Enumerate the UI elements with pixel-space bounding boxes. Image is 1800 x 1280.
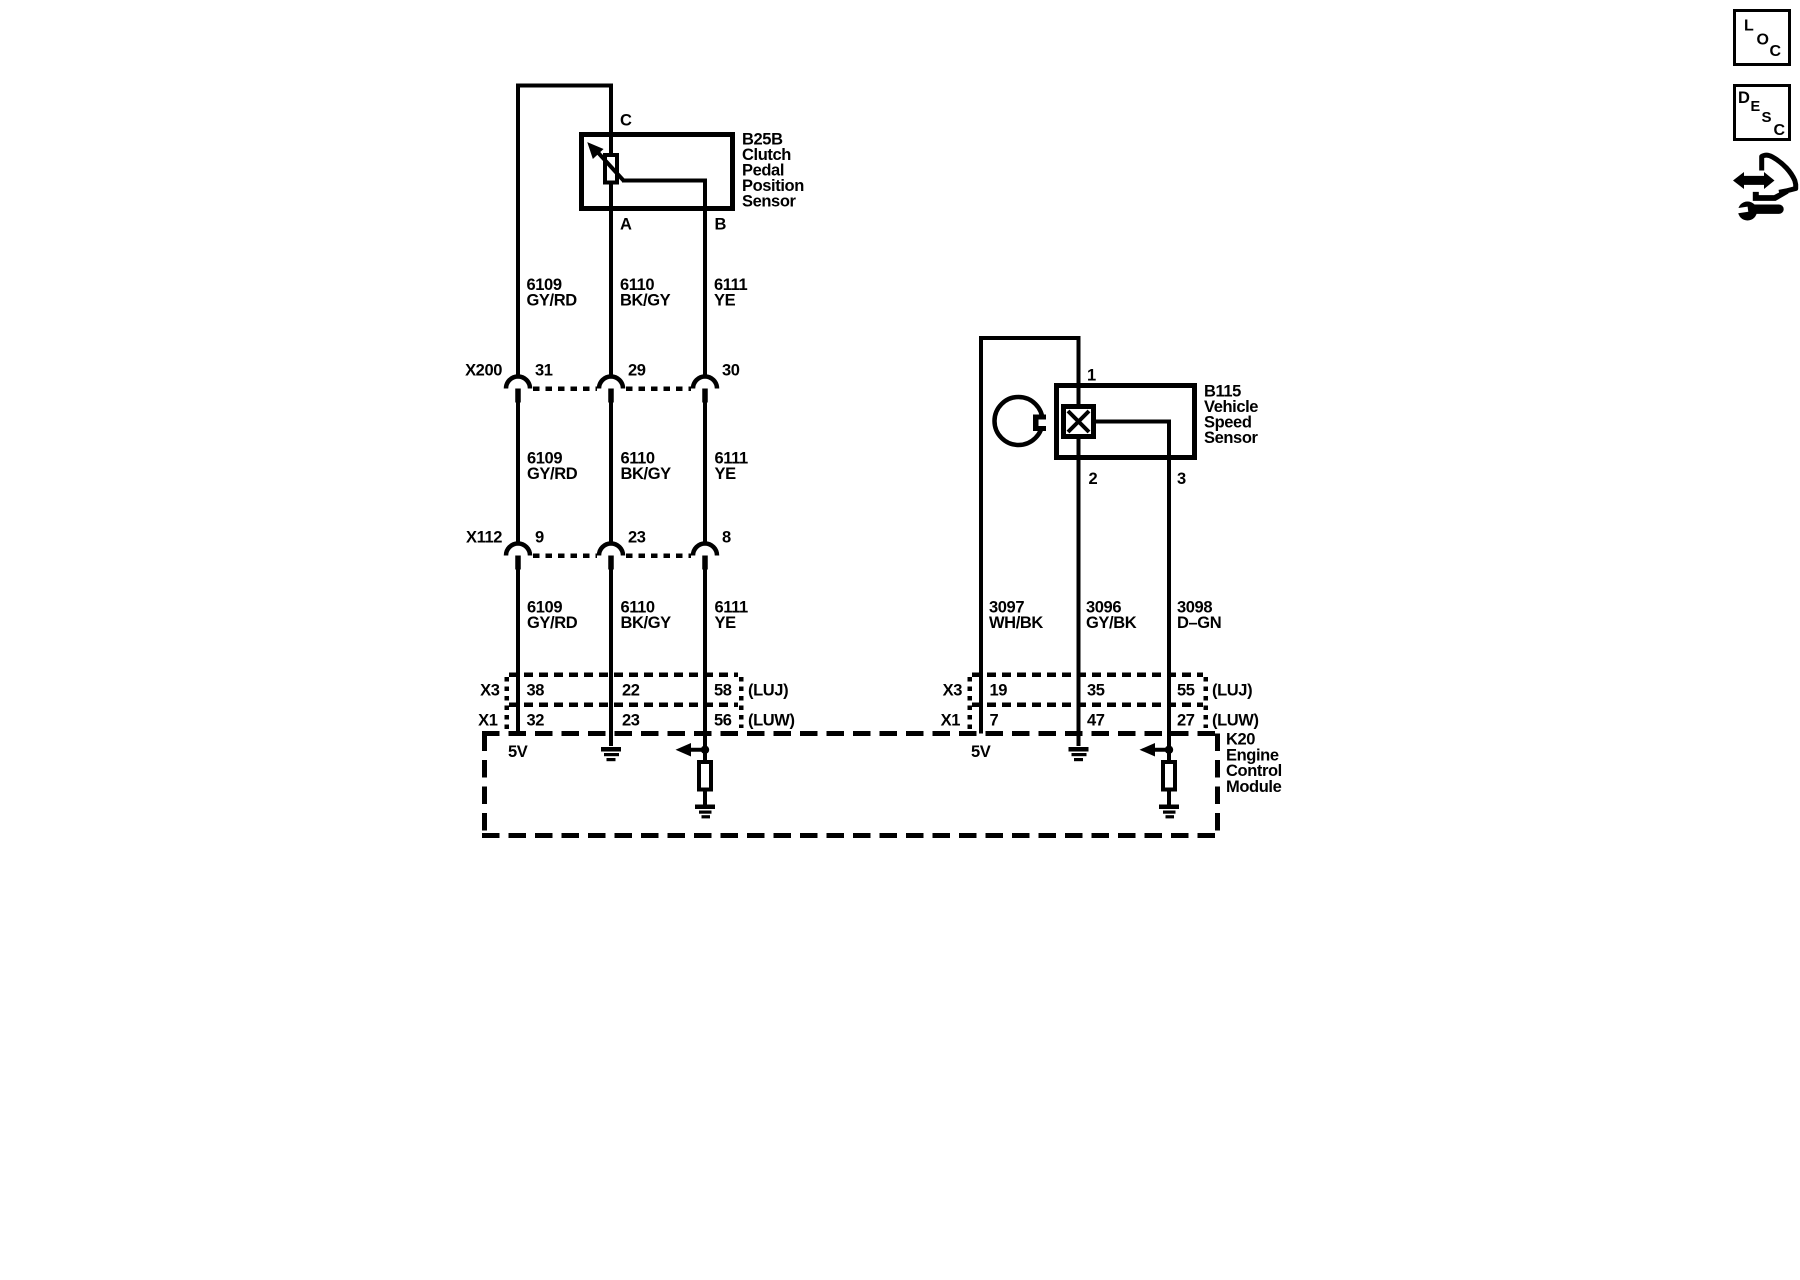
svg-text:19: 19 [990,682,1008,700]
X3/X1 row dotted left edge (left) [504,677,509,731]
wire pin B vertical down [703,179,707,377]
wire 6110 lower segment [609,569,613,746]
wire pin 1 vertical into sensor [1077,336,1081,407]
wire 6109 lower segment [516,569,520,734]
wire 5V feed top horizontal (C to supply) [516,84,613,88]
svg-text:22: 22 [622,682,640,700]
X200 dashed connector line [533,386,691,391]
svg-text:38: 38 [527,682,545,700]
connector X200 arc terminal wire 1 [506,377,530,389]
svg-text:BK/GY: BK/GY [621,465,672,483]
wire resistor to ground left [703,790,707,806]
wire sensor output horizontal to pin 3 [1094,420,1171,424]
svg-text:S: S [1762,109,1772,126]
K20 Engine Control Module dashed box [482,734,1218,839]
svg-text:X1: X1 [478,712,498,730]
DESC icon box [1735,86,1790,140]
wire wiper horizontal to pin B [622,179,707,183]
svg-text:GY/RD: GY/RD [527,292,578,310]
svg-text:YE: YE [715,465,737,483]
diagnostic icon double arrow [1733,172,1775,189]
wire 6111 mid segment [703,402,707,544]
wire 6109 mid segment [516,402,520,544]
svg-text:31: 31 [535,362,553,380]
svg-text:BK/GY: BK/GY [620,292,671,310]
wire pin 3 vertical down [1167,420,1171,763]
svg-text:B: B [715,216,727,234]
sensor B115 box [1057,386,1195,458]
svg-text:7: 7 [990,712,999,730]
junction node left [701,746,709,754]
svg-text:3: 3 [1177,470,1186,488]
wire 6111 lower segment [703,569,707,762]
X112 terminal stub wire 3 [702,556,708,570]
sensor element box with X [1064,407,1094,437]
wire pin 2 vertical down [1077,437,1081,746]
X3/X1 row dotted right edge (right) [1203,677,1208,728]
svg-text:2: 2 [1089,470,1098,488]
X3/X1 row dashed middle line (right) [972,702,1203,707]
LOC icon box [1735,11,1790,65]
svg-text:30: 30 [722,362,740,380]
X200 terminal stub wire 2 [608,389,614,403]
svg-text:BK/GY: BK/GY [621,614,672,632]
svg-text:56: 56 [714,712,732,730]
X112 terminal stub wire 1 [515,556,521,570]
X112 dashed connector line [533,553,691,558]
svg-text:47: 47 [1087,712,1105,730]
svg-text:X200: X200 [465,362,502,380]
svg-text:32: 32 [527,712,545,730]
wire 3097 supply column [979,336,983,734]
svg-text:X3: X3 [943,682,963,700]
junction node right [1165,746,1173,754]
svg-text:X3: X3 [480,682,500,700]
potentiometer element in B25B [605,155,617,183]
svg-text:(LUW): (LUW) [1212,712,1259,730]
svg-text:X1: X1 [941,712,961,730]
X3/X1 row dotted left edge (right) [967,677,972,731]
svg-text:5V: 5V [971,743,991,761]
svg-text:(LUW): (LUW) [748,712,795,730]
X3 connector row dashed top line (right) [972,672,1203,677]
diagnostic icon wrench [1737,202,1779,221]
svg-text:1: 1 [1087,367,1096,385]
connector X112 arc terminal wire 2 [599,544,623,556]
svg-text:L: L [1744,18,1754,35]
ground symbol left (pin A wire) [601,747,621,761]
svg-text:YE: YE [714,292,736,310]
wire top horizontal B115 supply [979,336,1081,340]
ground symbol right (pin 2 wire) [1069,747,1089,761]
signal arrow left (pin B wire) [676,743,706,757]
svg-text:C: C [620,112,632,130]
svg-text:E: E [1751,99,1761,115]
svg-text:Module: Module [1226,778,1282,796]
svg-text:23: 23 [622,712,640,730]
svg-text:YE: YE [715,614,737,632]
diagnostic icon arrow outline [1753,155,1796,201]
svg-text:55: 55 [1177,682,1195,700]
connector X112 arc terminal wire 3 [693,544,717,556]
wire 6109 upper segment (supply column) [516,84,520,377]
connector X112 arc terminal wire 1 [506,544,530,556]
svg-text:27: 27 [1177,712,1195,730]
svg-text:GY/RD: GY/RD [527,614,578,632]
X3 connector row dashed top line (left) [509,672,738,677]
svg-text:29: 29 [628,362,646,380]
svg-text:C: C [1770,43,1782,60]
svg-text:Sensor: Sensor [742,193,797,211]
ground symbol below resistor left [695,805,715,819]
svg-text:O: O [1757,32,1769,49]
svg-text:9: 9 [535,529,544,547]
connector X200 arc terminal wire 2 [599,377,623,389]
svg-text:Sensor: Sensor [1204,429,1259,447]
speed sensor rotor circle [995,397,1050,445]
svg-text:58: 58 [714,682,732,700]
svg-text:D–GN: D–GN [1177,614,1221,632]
svg-text:5V: 5V [508,743,528,761]
wire resistor to ground right [1167,790,1171,806]
svg-text:35: 35 [1087,682,1105,700]
X3/X1 row dashed middle line (left) [509,702,738,707]
resistor (internal pull-up) right [1163,762,1175,790]
wire pin A from potentiometer down [609,182,613,377]
svg-text:(LUJ): (LUJ) [1212,682,1252,700]
X112 terminal stub wire 2 [608,556,614,570]
connector X200 arc terminal wire 3 [693,377,717,389]
signal arrow right (pin 3 wire) [1140,743,1170,757]
wire pin C vertical into sensor [609,84,613,157]
svg-text:GY/RD: GY/RD [527,465,578,483]
svg-text:(LUJ): (LUJ) [748,682,788,700]
svg-text:C: C [1774,122,1786,139]
sensor B25B box [582,135,733,209]
svg-text:WH/BK: WH/BK [989,614,1043,632]
X200 terminal stub wire 1 [515,389,521,403]
svg-text:8: 8 [722,529,731,547]
svg-text:GY/BK: GY/BK [1086,614,1137,632]
X200 terminal stub wire 3 [702,389,708,403]
svg-text:X112: X112 [466,529,502,547]
wire 6110 mid segment [609,402,613,544]
ground symbol below resistor right [1159,805,1179,819]
svg-text:A: A [620,216,632,234]
svg-text:23: 23 [628,529,646,547]
X3/X1 row dotted right edge (left) [739,677,744,728]
potentiometer wiper arrow [589,144,624,181]
svg-text:D: D [1738,89,1750,107]
resistor (internal pull-up) left [699,762,711,790]
